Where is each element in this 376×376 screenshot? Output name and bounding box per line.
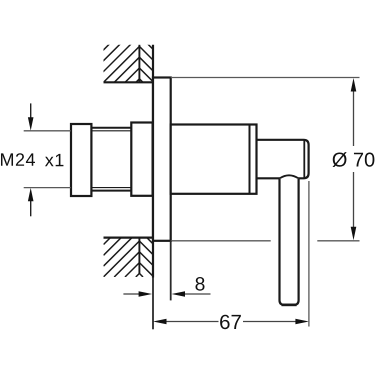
diameter 70 dimension line <box>351 78 357 240</box>
8 dim right arrow and line <box>184 293 211 295</box>
lever arm bottom cap <box>282 304 297 307</box>
bottom wall block top edge <box>104 237 154 239</box>
wall face extension line for dims <box>152 278 154 330</box>
wall surface line <box>152 45 154 278</box>
threaded section M24 crest lines <box>91 128 131 191</box>
label 67 <box>220 315 241 330</box>
lever arm <box>280 179 299 305</box>
M24 extension lines <box>24 131 71 188</box>
label M24x1 <box>1 153 35 166</box>
right collar at wall <box>131 123 152 196</box>
67 dim line <box>153 319 309 325</box>
8 dim left arrow <box>123 291 210 297</box>
67 extension line (handle end) <box>308 181 310 327</box>
8 dim extension line (plate face) <box>170 241 172 301</box>
label diameter 70 <box>333 152 375 167</box>
handle hub end cap line <box>303 140 305 179</box>
top wall block centre line <box>138 45 140 83</box>
bottom wall block hatch <box>104 238 154 277</box>
escutcheon plate <box>153 78 171 241</box>
lever arm top fillet arc <box>280 175 299 178</box>
valve body <box>171 125 257 194</box>
top wall block hatch <box>103 14 154 82</box>
diameter 70 extension line top <box>171 77 360 79</box>
diameter 70 extension line bottom <box>171 240 360 242</box>
handle hub <box>257 140 309 179</box>
M24 dim arrow top <box>28 103 34 216</box>
label 8 <box>195 277 204 291</box>
bottom wall block centre line <box>138 238 140 275</box>
left collar of union nut <box>71 124 91 196</box>
valve body cap ring line <box>249 125 251 194</box>
threaded section root lines <box>91 130 131 132</box>
M24 dim arrow bottom <box>30 200 32 216</box>
top wall block bottom edge <box>104 81 154 83</box>
